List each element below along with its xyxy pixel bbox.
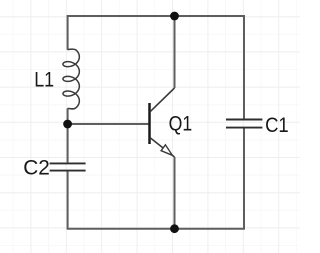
wire left middle segment (L1 to C2): [67, 108, 69, 162]
wire left upper segment (top rail to L1): [67, 17, 69, 50]
wire right lower segment (C1 to bottom rail): [243, 129, 245, 229]
node A junction left (L1/C2/base): [63, 120, 72, 129]
node junction bottom (emitter rail): [170, 224, 179, 233]
inductor L1: [63, 49, 79, 109]
svg-text:C1: C1: [265, 113, 289, 137]
wire emitter (Q1 to bottom node): [174, 157, 176, 228]
wire right upper segment (top rail to C1): [243, 17, 245, 119]
capacitor C1: [226, 120, 262, 128]
transistor Q1 (NPN): [150, 88, 175, 157]
wire bottom rail: [67, 228, 245, 230]
wire top rail: [67, 15, 245, 17]
node junction top (collector rail): [170, 12, 179, 21]
wire collector (top node to Q1): [174, 16, 176, 88]
wire left lower segment (C2 to bottom rail): [67, 171, 69, 228]
svg-text:C2: C2: [23, 155, 50, 179]
wire base (node A to Q1 base): [68, 123, 149, 125]
capacitor C2: [50, 163, 86, 170]
svg-text:L1: L1: [34, 68, 54, 92]
svg-text:Q1: Q1: [169, 112, 193, 136]
